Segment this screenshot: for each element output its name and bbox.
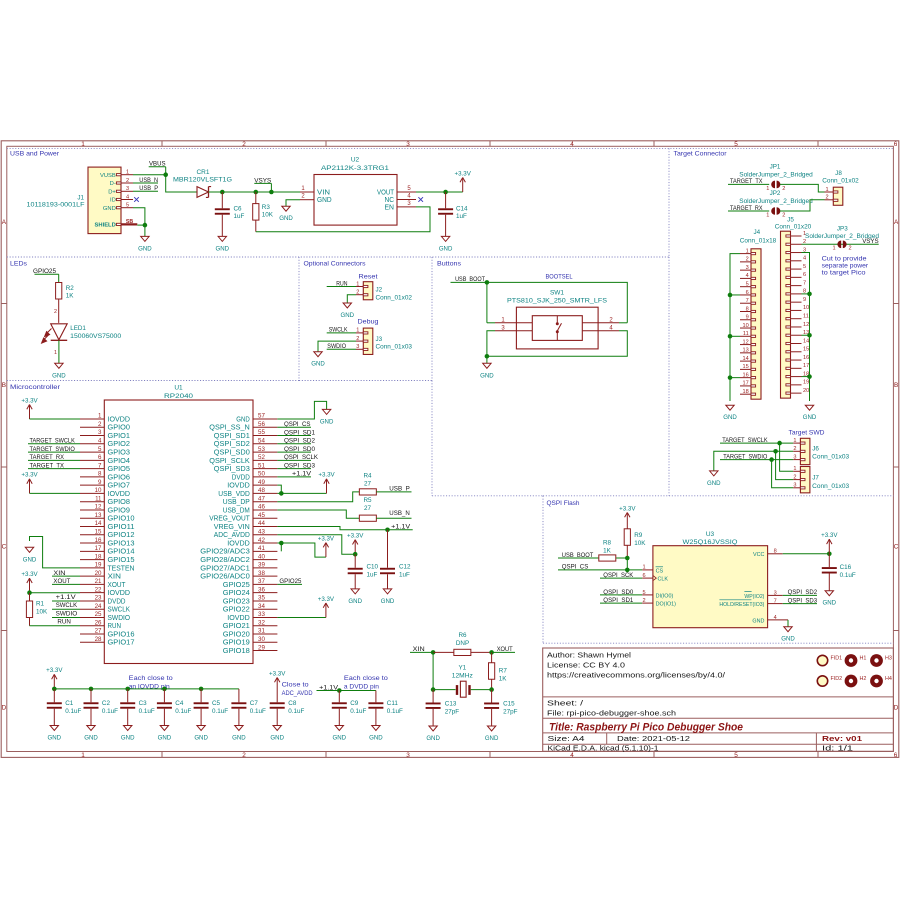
svg-text:USB_VDD: USB_VDD [218, 491, 250, 498]
svg-text:57: 57 [258, 413, 265, 420]
svg-text:J2: J2 [376, 287, 383, 294]
svg-text:44: 44 [258, 520, 265, 527]
svg-text:Conn_01x03: Conn_01x03 [812, 483, 850, 490]
svg-text:IOVDD: IOVDD [227, 540, 250, 547]
svg-text:GND: GND [158, 735, 172, 742]
net label TARGET_RX jp2 [728, 205, 769, 212]
mounting hole H4 [870, 675, 892, 688]
svg-text:C10: C10 [367, 564, 379, 571]
solder jumper JP3 [832, 240, 851, 251]
wire J4 pin6 stub [730, 294, 740, 296]
resistor R4 [359, 489, 376, 495]
ground C12 [381, 589, 395, 605]
junction XOUT [489, 650, 494, 655]
svg-text:0.1uF: 0.1uF [250, 708, 266, 715]
C15 labels [503, 700, 518, 715]
net label USB_P [133, 185, 158, 192]
svg-text:3: 3 [793, 483, 796, 489]
svg-text:14: 14 [95, 520, 102, 527]
power +3.3V at IOVDD42 [318, 535, 335, 557]
svg-text:Conn_01x20: Conn_01x20 [775, 223, 812, 230]
junction pin42 [279, 541, 284, 546]
svg-text:41: 41 [258, 545, 265, 552]
svg-text:SWDIO: SWDIO [56, 610, 78, 617]
svg-text:2: 2 [54, 309, 57, 315]
svg-text:GPIO15: GPIO15 [108, 557, 135, 564]
ground C14 [439, 236, 453, 252]
svg-text:GND: GND [138, 245, 152, 252]
svg-text:1uF: 1uF [456, 213, 467, 220]
svg-text:GPIO23: GPIO23 [223, 598, 250, 605]
junction C9 [337, 688, 342, 693]
ground C9 [333, 726, 347, 742]
junction J5 pin8 [807, 292, 812, 297]
junction C6 [220, 190, 225, 195]
svg-text:+1.1V: +1.1V [391, 524, 411, 531]
svg-text:34: 34 [258, 603, 265, 610]
svg-text:USB_DP: USB_DP [223, 499, 250, 506]
junction C13 [431, 687, 436, 692]
svg-text:J4: J4 [753, 229, 760, 236]
svg-text:10118193-0001LF: 10118193-0001LF [27, 201, 85, 208]
svg-text:VREG_VIN: VREG_VIN [214, 524, 250, 531]
svg-text:2: 2 [642, 598, 645, 604]
wire USB_BOOT to SW1 right rail [487, 282, 627, 322]
svg-text:1: 1 [793, 438, 796, 444]
net label QSPI_SD3 u1 [277, 463, 315, 470]
svg-text:11: 11 [743, 331, 749, 337]
C4 labels [175, 700, 191, 715]
svg-text:2: 2 [782, 186, 785, 192]
svg-text:TESTEN: TESTEN [108, 565, 135, 572]
svg-text:to target Pico: to target Pico [822, 269, 866, 276]
wire TARGET_SWCLK to J7 pin1 [780, 443, 794, 471]
svg-text:15: 15 [742, 364, 748, 370]
net label QSPI_SCK u3 [600, 572, 642, 579]
svg-text:12: 12 [742, 339, 748, 345]
wire USB_BOOT to SW1 pin1 [487, 282, 495, 322]
svg-text:QSPI_SS_N: QSPI_SS_N [209, 425, 250, 432]
wire SW1 pin3 to bottom rail [487, 331, 495, 357]
C11 labels [387, 700, 403, 715]
flash U3 [642, 546, 788, 628]
R3 labels [262, 204, 274, 219]
resistor R7 [489, 652, 495, 689]
svg-text:16: 16 [742, 372, 748, 378]
svg-text:2: 2 [793, 474, 796, 480]
svg-text:51: 51 [258, 462, 265, 469]
svg-text:DVDD: DVDD [232, 474, 250, 481]
wire USB_DP to R4 [277, 492, 359, 502]
connector J6 [793, 438, 810, 465]
svg-text:150060VS75000: 150060VS75000 [70, 333, 122, 340]
svg-text:20: 20 [95, 570, 102, 577]
svg-text:20: 20 [803, 388, 809, 394]
wire R3 bottom to EN [256, 207, 430, 232]
wire shield to ground [144, 225, 146, 236]
svg-text:GND: GND [121, 735, 135, 742]
svg-text:12: 12 [803, 322, 809, 328]
junction C16 [827, 552, 832, 557]
junction QSPI_CS [625, 568, 630, 573]
svg-text:A: A [894, 219, 899, 226]
junction C14 [443, 190, 448, 195]
svg-text:USB and Power: USB and Power [10, 151, 60, 158]
wire +3.3V junction to pin22 [30, 592, 81, 594]
net label +1.1V caps [317, 684, 340, 691]
junction C3 [125, 687, 130, 692]
svg-text:R6: R6 [458, 632, 467, 639]
svg-text:ADC_AVDD: ADC_AVDD [282, 690, 313, 697]
solder jumper JP2 [766, 207, 785, 218]
svg-text:W25Q16JVSSIQ: W25Q16JVSSIQ [683, 539, 738, 546]
svg-text:LED1: LED1 [70, 325, 86, 332]
svg-text:3: 3 [406, 141, 410, 148]
svg-text:Conn_01x03: Conn_01x03 [376, 343, 413, 350]
svg-text:QSPI_SCLK: QSPI_SCLK [209, 458, 250, 465]
wire J4 ground rail [730, 254, 740, 401]
svg-text:GND: GND [752, 618, 764, 624]
svg-text:SW1: SW1 [550, 289, 564, 296]
svg-text:9: 9 [98, 479, 102, 486]
resistor R9 [624, 529, 630, 558]
svg-text:27pF: 27pF [503, 708, 518, 715]
net label QSPI_SD0 u3 [600, 589, 642, 596]
svg-text:48: 48 [258, 487, 265, 494]
svg-text:GND: GND [348, 598, 362, 605]
svg-text:Y1: Y1 [458, 665, 466, 672]
svg-text:GND: GND [341, 312, 355, 319]
svg-text:GPIO10: GPIO10 [108, 516, 135, 523]
power +3.3V at USB_VDD [318, 472, 335, 494]
note Each close to a DVDD pin [344, 675, 388, 690]
svg-text:NC: NC [385, 197, 395, 204]
svg-text:14: 14 [742, 356, 748, 362]
svg-text:Microcontroller: Microcontroller [10, 384, 61, 391]
resistor R2 [56, 283, 62, 323]
svg-text:VREG_VOUT: VREG_VOUT [209, 516, 250, 523]
wire IOVDD42 to +3.3V [277, 543, 326, 557]
svg-text:3: 3 [98, 429, 102, 436]
mounting hole H2 [845, 675, 867, 688]
svg-text:FID2: FID2 [831, 676, 843, 682]
svg-text:Size: A4: Size: A4 [548, 736, 585, 743]
svg-text:53: 53 [258, 446, 265, 453]
ground C2 [84, 726, 98, 742]
svg-text:1: 1 [54, 350, 57, 356]
svg-text:GPIO27/ADC1: GPIO27/ADC1 [200, 565, 250, 572]
junction C5 [199, 687, 204, 692]
svg-text:6: 6 [894, 141, 898, 148]
svg-text:4: 4 [98, 438, 102, 445]
ground C7 [232, 726, 246, 742]
wire +3.3V to pin1 [30, 418, 81, 420]
svg-text:RUN: RUN [57, 619, 71, 626]
capacitor C15 [484, 690, 499, 726]
svg-text:J1: J1 [77, 194, 84, 201]
R4 labels [363, 473, 372, 488]
C7 labels [250, 700, 266, 715]
R1 labels [36, 601, 48, 616]
junction R3 [254, 190, 259, 195]
svg-text:GPIO3: GPIO3 [108, 449, 131, 456]
junction C2 [89, 687, 94, 692]
connector J5 [781, 231, 810, 398]
svg-text:0.1uF: 0.1uF [350, 708, 366, 715]
svg-text:1uF: 1uF [399, 572, 410, 579]
capacitor C12 [380, 530, 395, 589]
svg-text:C15: C15 [503, 700, 515, 707]
svg-text:R1: R1 [36, 601, 45, 608]
svg-text:2: 2 [793, 446, 796, 452]
svg-text:GPIO5: GPIO5 [108, 466, 131, 473]
LED LED1 [42, 324, 68, 343]
wire J5 ground rail [802, 253, 810, 401]
svg-text:0.1uF: 0.1uF [102, 708, 118, 715]
svg-text:3: 3 [126, 186, 129, 192]
power +3.3V at VOUT [455, 170, 472, 192]
svg-text:GPIO22: GPIO22 [223, 607, 250, 614]
ground C15 [485, 726, 499, 742]
svg-text:BOOTSEL: BOOTSEL [546, 273, 573, 280]
ground C13 [426, 726, 440, 742]
ground C4 [158, 726, 172, 742]
ground C16 [823, 591, 837, 607]
frame column ticks [162, 141, 818, 758]
svg-text:GPIO21: GPIO21 [223, 623, 250, 630]
svg-text:2: 2 [356, 290, 359, 296]
svg-text:SWDIO: SWDIO [108, 615, 131, 622]
svg-text:27: 27 [95, 628, 102, 635]
svg-text:JP1: JP1 [770, 163, 781, 170]
net label QSPI_SD3 u3 [783, 597, 818, 604]
net label QSPI_SD2 u1 [277, 438, 315, 445]
svg-text:GND: GND [84, 735, 98, 742]
frame column numbers [81, 141, 898, 759]
svg-text:GND: GND [803, 414, 817, 421]
svg-text:+3.3V: +3.3V [21, 571, 38, 578]
net label QSPI_SD1 u1 [277, 429, 315, 436]
svg-text:GND: GND [320, 418, 334, 425]
power +3.3V at U1 pin1 [21, 397, 38, 419]
net label TARGET_SWDIO u1 [28, 446, 80, 453]
svg-text:GPIO28/ADC2: GPIO28/ADC2 [200, 557, 250, 564]
svg-text:C11: C11 [387, 700, 399, 707]
svg-text:GND: GND [381, 598, 395, 605]
svg-text:37: 37 [258, 578, 265, 585]
C6 labels [234, 206, 245, 220]
svg-text:Date: 2021-05-12: Date: 2021-05-12 [617, 736, 690, 743]
svg-text:4: 4 [774, 615, 777, 621]
svg-text:12: 12 [95, 504, 102, 511]
svg-text:+1.1V: +1.1V [56, 594, 77, 601]
wire VREG_VIN to C12 rail [277, 527, 412, 530]
svg-text:10K: 10K [634, 540, 646, 547]
svg-text:ID: ID [110, 198, 116, 204]
net label QSPI_SCLK u1 [277, 454, 318, 461]
wire J5 pin18 stub [802, 376, 810, 378]
capacitor C3 [120, 689, 135, 726]
svg-text:U2: U2 [351, 157, 360, 164]
R9 labels [634, 532, 646, 547]
svg-text:17: 17 [95, 545, 102, 552]
wire J5 pin2 to VSYS [802, 243, 879, 245]
svg-text:5: 5 [734, 752, 738, 759]
capacitor C9 [332, 691, 347, 726]
wire J1 pin1 to VBUS node [133, 174, 166, 176]
svg-text:18: 18 [742, 389, 748, 395]
svg-text:3: 3 [406, 752, 410, 759]
section Target Connector box [669, 495, 893, 497]
resistor R5 [359, 515, 376, 521]
net label USB_N [133, 177, 158, 184]
fiducial FID2 [817, 676, 842, 686]
ground J5 [803, 405, 817, 421]
microcontroller U1 [80, 400, 277, 664]
svg-text:16: 16 [803, 355, 809, 361]
capacitor C11 [368, 691, 383, 726]
power +3.3V at U1 pin10 [21, 472, 38, 494]
svg-text:DNP: DNP [456, 640, 469, 647]
svg-text:17: 17 [803, 363, 809, 369]
svg-text:12MHz: 12MHz [452, 673, 473, 680]
svg-text:SWCLK: SWCLK [56, 602, 78, 609]
wire SW1 to ground [486, 356, 488, 363]
svg-text:GPIO7: GPIO7 [108, 483, 131, 490]
svg-text:C16: C16 [840, 564, 852, 571]
wire J6 pin2 to ground [714, 451, 793, 471]
svg-text:17: 17 [742, 381, 748, 387]
svg-text:26: 26 [95, 619, 102, 626]
svg-text:5: 5 [98, 446, 102, 453]
svg-text:+3.3V: +3.3V [318, 596, 335, 603]
svg-text:Reset: Reset [359, 273, 378, 280]
svg-text:D: D [2, 705, 7, 712]
svg-text:7: 7 [746, 298, 749, 304]
ground C6 [216, 236, 230, 252]
svg-text:27: 27 [364, 480, 372, 487]
wire R8 to junction [616, 557, 627, 559]
junction C15 [489, 687, 494, 692]
svg-text:ADC_AVDD: ADC_AVDD [214, 532, 250, 539]
svg-text:GND: GND [333, 735, 347, 742]
svg-text:39: 39 [258, 562, 265, 569]
svg-text:GND: GND [480, 372, 494, 379]
svg-text:14: 14 [803, 338, 809, 344]
svg-text:J3: J3 [376, 336, 383, 343]
svg-text:+3.3V: +3.3V [46, 667, 63, 674]
svg-text:GPIO12: GPIO12 [108, 532, 135, 539]
svg-text:Rev: v01: Rev: v01 [822, 734, 862, 743]
svg-text:8: 8 [774, 549, 777, 555]
junction SW1 ground [485, 354, 490, 359]
svg-text:GND: GND [439, 245, 453, 252]
mounting hole H1 [845, 654, 867, 667]
svg-text:Title: Raspberry Pi Pico Debug: Title: Raspberry Pi Pico Debugger Shoe [549, 721, 743, 733]
net label XIN u1 [52, 570, 80, 577]
svg-text:GPIO29/ADC3: GPIO29/ADC3 [200, 549, 250, 556]
svg-text:5: 5 [642, 590, 645, 596]
svg-text:AP2112K-3.3TRG1: AP2112K-3.3TRG1 [321, 165, 389, 172]
svg-text:Target SWD: Target SWD [789, 430, 825, 437]
net label GPIO25 led [33, 268, 59, 282]
svg-text:JP3: JP3 [837, 225, 848, 232]
power +3.3V at U3 [821, 532, 838, 554]
capacitor C4 [157, 689, 172, 726]
wire VCC to +3.3V [783, 553, 830, 555]
wire TARGET_SWDIO to J7 pin3 [772, 460, 794, 488]
connector J8 [825, 187, 843, 205]
wire XIN down to crystal [433, 652, 455, 689]
svg-text:GND: GND [723, 414, 737, 421]
svg-text:Optional Connectors: Optional Connectors [304, 261, 367, 268]
svg-text:VUSB: VUSB [100, 173, 116, 179]
ground C5 [194, 726, 208, 742]
junction pin48 [279, 491, 284, 496]
svg-text:1: 1 [832, 246, 835, 252]
junction TARGET_SWDIO [769, 457, 774, 462]
wire iovdd cap bus [54, 688, 239, 690]
svg-text:1: 1 [81, 141, 85, 148]
wire J4 pin11 stub [730, 335, 740, 337]
svg-text:SHIELD: SHIELD [95, 223, 116, 229]
svg-text:6: 6 [894, 752, 898, 759]
svg-text:0.1uF: 0.1uF [139, 708, 155, 715]
junction XIN [431, 650, 436, 655]
svg-text:D+: D+ [108, 190, 116, 196]
svg-text:5: 5 [746, 281, 749, 287]
svg-text:a DVDD pin: a DVDD pin [344, 683, 379, 690]
frame row letters [2, 219, 899, 712]
wire SW1 bottom rail [487, 331, 627, 357]
svg-text:U3: U3 [706, 531, 715, 538]
svg-text:3: 3 [356, 344, 359, 350]
svg-text:GPIO6: GPIO6 [108, 474, 131, 481]
wire J6 pin2 branch to J7 pin2 [776, 451, 794, 479]
svg-text:+3.3V: +3.3V [318, 535, 335, 542]
net label USB_P r4 [376, 486, 411, 493]
svg-text:0.1uF: 0.1uF [65, 708, 81, 715]
net label VSYS [254, 177, 271, 192]
svg-text:KiCad E.D.A. kicad (5.1.10)-1: KiCad E.D.A. kicad (5.1.10)-1 [548, 745, 659, 752]
connector J7 [793, 466, 810, 493]
wire LED1 to ground [58, 340, 60, 363]
svg-text:7: 7 [803, 280, 806, 286]
svg-text:21: 21 [95, 578, 102, 585]
svg-text:31: 31 [258, 628, 265, 635]
ground U1 TESTEN [23, 547, 37, 563]
svg-text:11: 11 [803, 314, 809, 320]
capacitor C14 [438, 192, 453, 236]
svg-text:GPIO2: GPIO2 [108, 441, 131, 448]
svg-text:2: 2 [126, 178, 129, 184]
svg-text:GND: GND [311, 361, 325, 368]
wire SW1 pin2 right rail joint [619, 322, 627, 324]
svg-text:1: 1 [642, 565, 645, 571]
frame row ticks [1, 304, 899, 631]
svg-text:C14: C14 [456, 206, 468, 213]
svg-text:35: 35 [258, 595, 265, 602]
svg-text:13: 13 [95, 512, 102, 519]
ground J1 [138, 236, 152, 252]
svg-text:MBR120VLSFT1G: MBR120VLSFT1G [173, 177, 232, 184]
svg-text:R3: R3 [262, 204, 271, 211]
svg-text:GPIO9: GPIO9 [108, 507, 131, 514]
wire shield to junction [137, 224, 145, 226]
svg-text:GND: GND [232, 735, 246, 742]
svg-text:1K: 1K [603, 547, 612, 554]
svg-text:Id: 1/1: Id: 1/1 [822, 745, 853, 752]
